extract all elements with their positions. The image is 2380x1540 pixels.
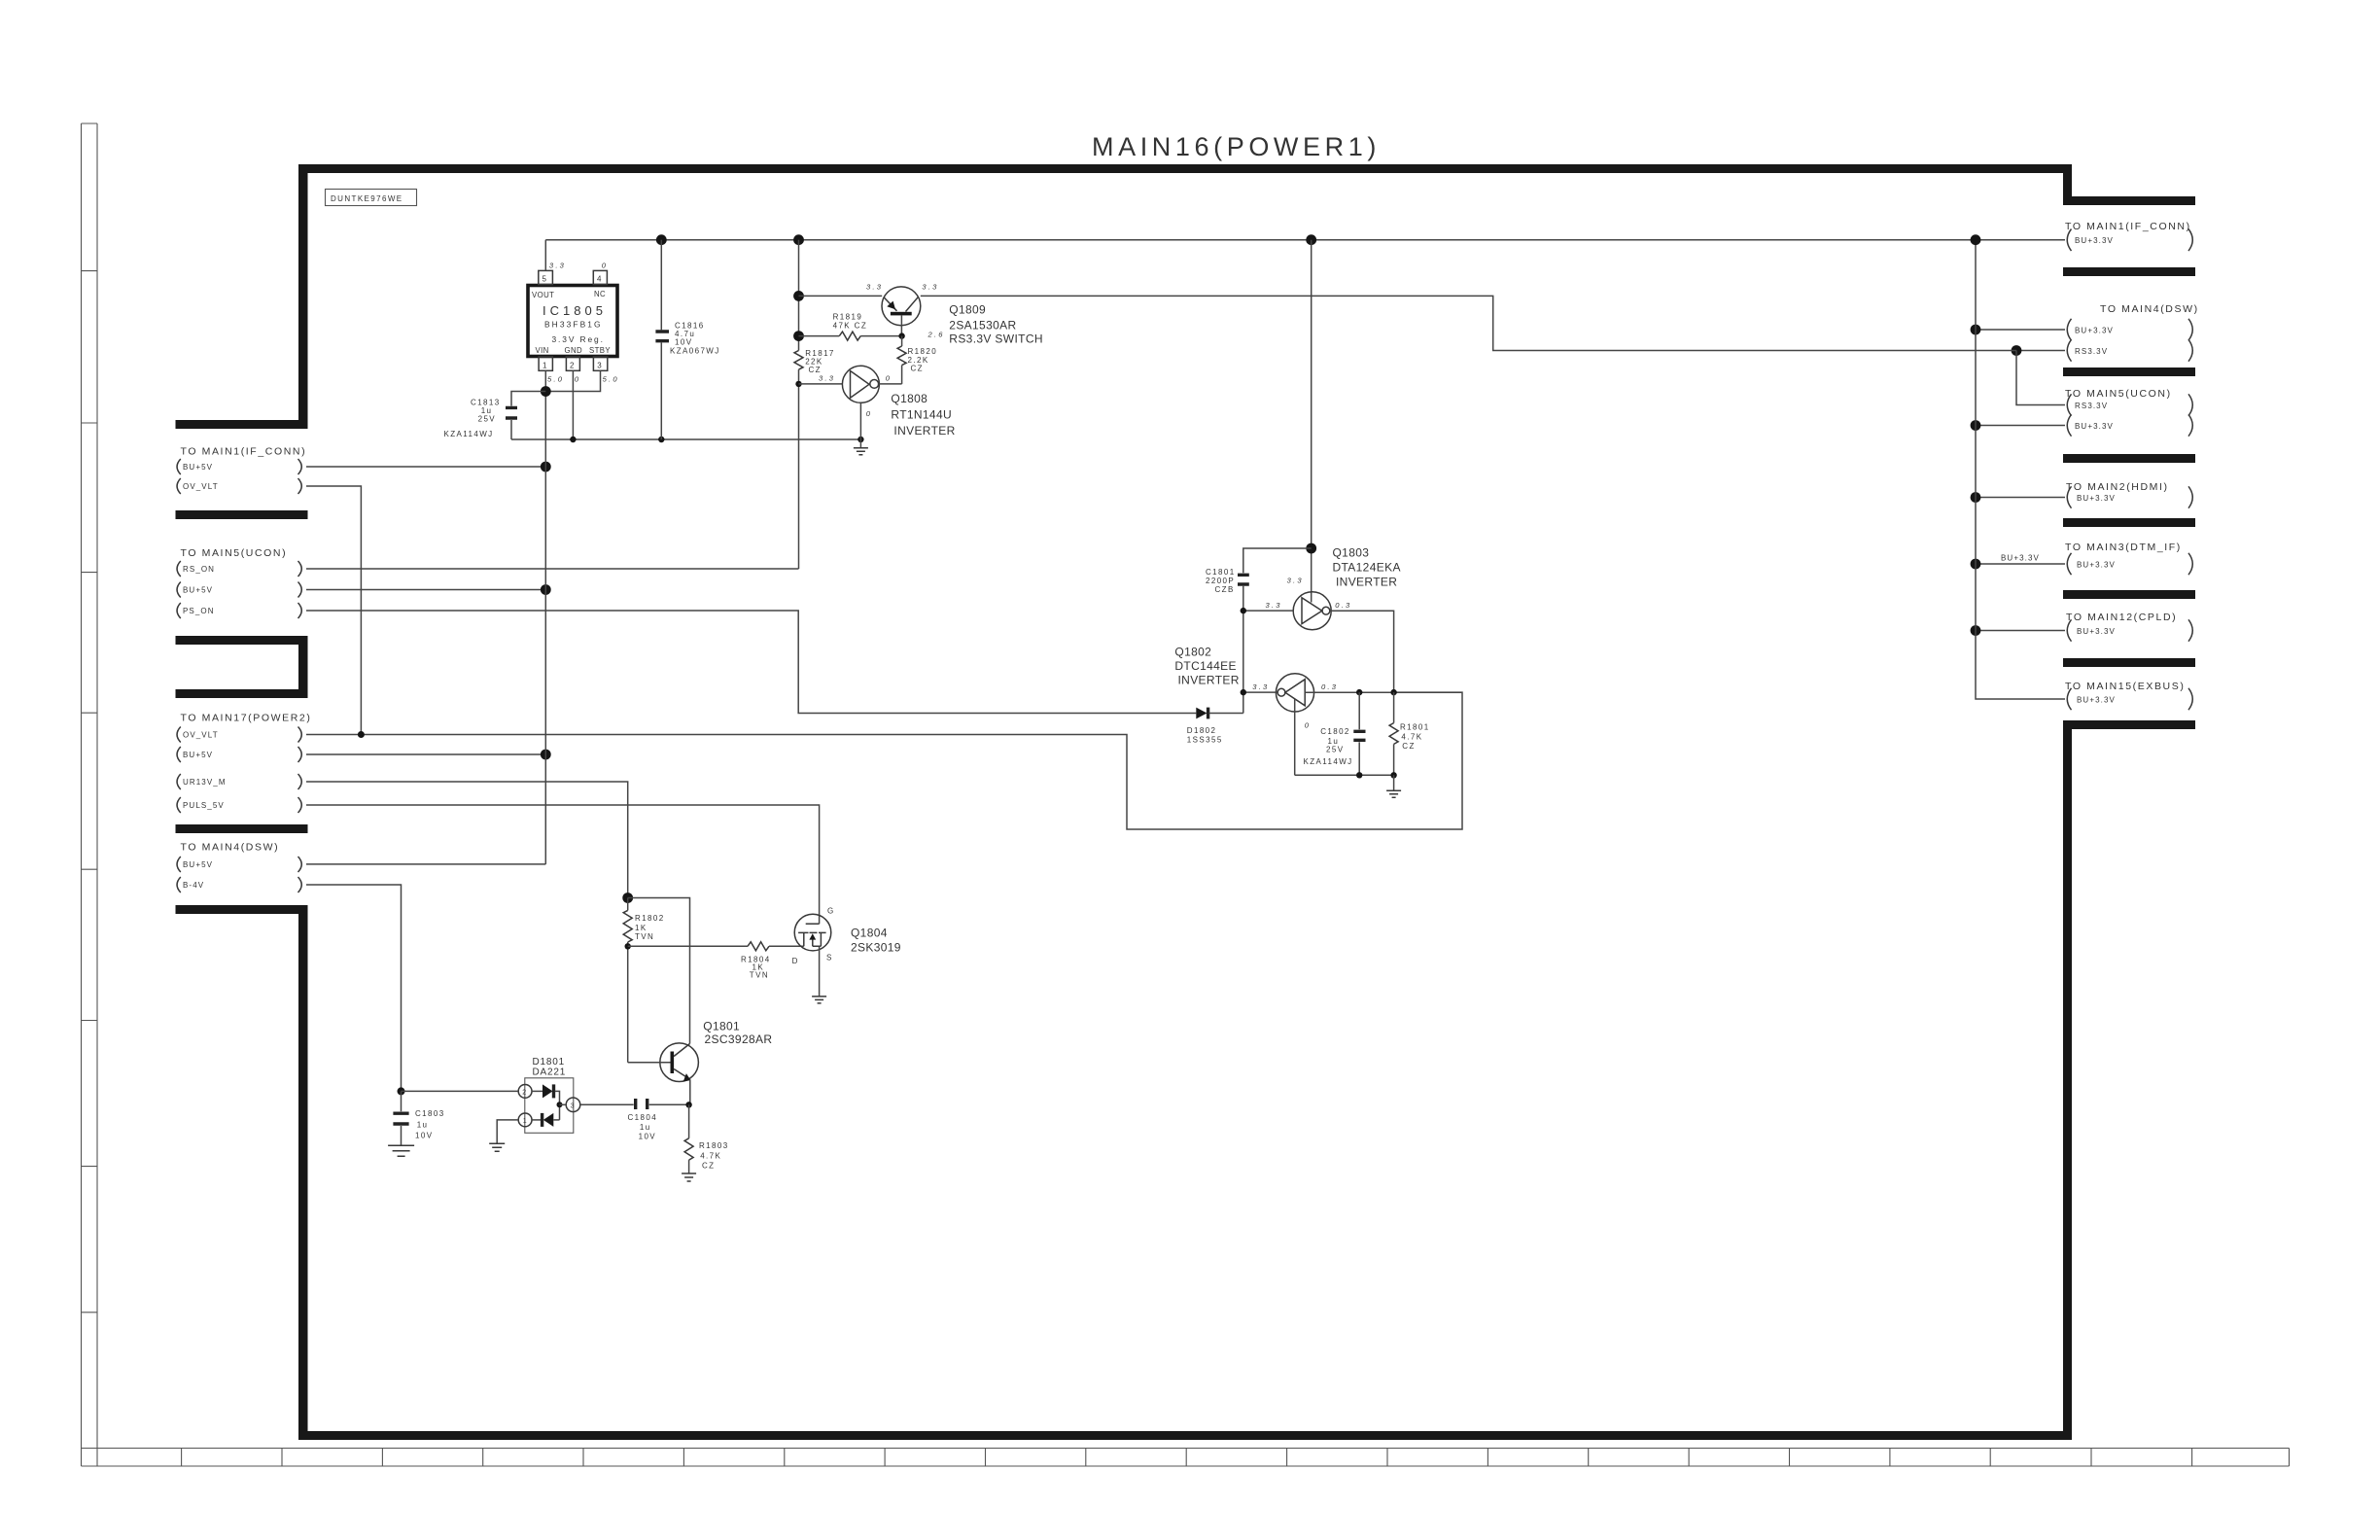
inverter Q1803 DTA124EKA: [1293, 592, 1331, 630]
wire Q1809 emitter branch vertical: [798, 240, 800, 351]
svg-text:INVERTER: INVERTER: [893, 424, 955, 437]
pin B-4V: [177, 877, 301, 892]
ROOM-BORDER top edge: [298, 164, 2072, 173]
wire BU+5V UCON to VIN riser: [306, 589, 545, 591]
node junction Q1802 input: [1241, 689, 1246, 695]
ROOM-BORDER left C-notch top bar: [176, 636, 308, 645]
node junction Q1808 input tee: [795, 381, 801, 387]
wire C1816 top branch: [660, 240, 662, 331]
wire collector link to Q1801: [628, 898, 690, 1044]
svg-text:DUNTKE976WE: DUNTKE976WE: [331, 194, 403, 203]
svg-text:C1802: C1802: [1320, 727, 1350, 736]
svg-text:1: 1: [523, 1118, 527, 1125]
node junction Q1803 input: [1241, 608, 1246, 613]
svg-text:TO MAIN3(DTM_IF): TO MAIN3(DTM_IF): [2065, 542, 2182, 553]
ROOM-BORDER right bar 7: [2063, 658, 2195, 667]
wire OV_VLT POWER2 loop to Q1802 output: [306, 692, 1462, 829]
svg-text:BU+3.3V: BU+3.3V: [2075, 326, 2114, 334]
wire C1803 bottom to ground: [401, 1126, 402, 1145]
ROOM-BORDER right cap below MAIN15(EXBUS): [2063, 720, 2195, 729]
svg-text:Q1802: Q1802: [1174, 646, 1211, 659]
pin BU+3.3V (MAIN3 right): [2067, 553, 2192, 575]
ROOM-BORDER left bar between MAIN17 and MAIN4 groups: [176, 824, 308, 833]
ROOM-BORDER right step vertical: [2063, 164, 2072, 205]
svg-text:DA221: DA221: [533, 1067, 567, 1078]
svg-text:D1802: D1802: [1187, 726, 1217, 735]
pin BU+3.3V (MAIN15 right): [2067, 688, 2192, 710]
svg-text:INVERTER: INVERTER: [1178, 674, 1240, 687]
svg-text:CZ: CZ: [911, 365, 924, 373]
svg-text:2SC3928AR: 2SC3928AR: [705, 1032, 773, 1046]
wire Q1809 emitter lead: [799, 295, 883, 297]
svg-text:0.3: 0.3: [1321, 682, 1338, 691]
node junction RS3.3V tee: [2012, 345, 2022, 356]
IC1805 pin 3 box: [593, 357, 607, 370]
ROOM-BORDER left top vertical: [298, 164, 308, 429]
svg-text:0: 0: [886, 374, 892, 383]
svg-text:3.3: 3.3: [1252, 682, 1269, 691]
svg-text:STBY: STBY: [589, 346, 611, 355]
svg-text:OV_VLT: OV_VLT: [183, 731, 219, 740]
transistor Q1804 2SK3019: [794, 914, 831, 951]
transistor Q1809 2SA1530AR: [882, 287, 921, 326]
node junction BU+5V/VIN: [541, 462, 551, 472]
wire BU+3.3V bus vertical with MAIN15 elbow: [1976, 240, 2065, 699]
ROOM-BORDER left cap below MAIN4 group: [176, 905, 308, 914]
wire RS3.3V from Q1809 collector to right connectors: [921, 296, 2016, 350]
svg-text:KZA067WJ: KZA067WJ: [670, 347, 720, 356]
svg-text:RT1N144U: RT1N144U: [891, 408, 952, 422]
svg-text:TO MAIN4(DSW): TO MAIN4(DSW): [181, 842, 280, 854]
svg-text:R1801: R1801: [1400, 723, 1430, 732]
svg-text:3.3V Reg.: 3.3V Reg.: [552, 334, 605, 344]
IC1805 pin 4 box: [593, 270, 607, 284]
wire BU+3.3V MAIN5 stub: [1976, 425, 2065, 427]
svg-text:TO MAIN15(EXBUS): TO MAIN15(EXBUS): [2065, 681, 2185, 692]
svg-text:NC: NC: [594, 290, 606, 298]
svg-text:5.0: 5.0: [603, 375, 619, 384]
pin RS_ON: [177, 561, 301, 577]
wire D1801 pin1 to ground: [497, 1120, 518, 1143]
wire pin2 GND riser: [572, 370, 574, 439]
svg-text:TVN: TVN: [750, 971, 769, 980]
wire C1813 bottom to ground rail: [510, 420, 512, 439]
svg-text:VOUT: VOUT: [532, 291, 554, 299]
node junction rail/bus: [1971, 234, 1981, 245]
svg-text:4.7K: 4.7K: [700, 1152, 721, 1161]
wire PS_ON to D1802 anode: [306, 611, 1196, 714]
ROOM-BORDER bottom edge: [298, 1431, 2072, 1440]
pin OV_VLT (MAIN1 left): [177, 478, 301, 494]
IC1805 pin 5 box: [539, 270, 553, 284]
svg-text:TO MAIN5(UCON): TO MAIN5(UCON): [2065, 388, 2172, 400]
pin BU+5V (POWER2): [177, 747, 301, 762]
PAGE-FRAME fold ticks: [82, 271, 98, 1312]
svg-text:CZ: CZ: [702, 1162, 715, 1171]
svg-text:VIN: VIN: [536, 346, 549, 355]
svg-text:3.3: 3.3: [1287, 577, 1304, 585]
wire pin1 VIN riser down through BU+5V taps: [544, 370, 546, 864]
wire BU+3.3V top rail: [545, 239, 2065, 241]
wire RS3.3V MAIN4 stub: [2016, 350, 2065, 352]
ground symbol under Q1804: [812, 997, 826, 1003]
svg-text:Q1801: Q1801: [703, 1020, 740, 1033]
svg-text:TO MAIN1(IF_CONN): TO MAIN1(IF_CONN): [2065, 221, 2191, 232]
pin BU+3.3V (MAIN4 right): [2067, 319, 2192, 340]
wire BU+5V MAIN1 to VIN riser: [306, 466, 545, 468]
svg-text:C1801: C1801: [1206, 568, 1236, 577]
svg-text:GND: GND: [565, 346, 583, 355]
svg-text:RS_ON: RS_ON: [183, 565, 215, 574]
wire OV_VLT MAIN1 down to POWER2 OV_VLT net: [306, 486, 361, 735]
wire PULS_5V to Q1804 gate: [306, 805, 820, 924]
transistor Q1801 2SC3928AR: [660, 1043, 699, 1082]
resistor R1817 22K: [794, 351, 803, 370]
regulator IC1805 outer box: [528, 286, 617, 357]
D1801 pin 3 circle: [566, 1098, 580, 1112]
BOARD-LABEL DUNTKE976WE: [326, 190, 417, 206]
svg-text:BU+3.3V: BU+3.3V: [2077, 494, 2116, 503]
svg-text:5: 5: [542, 275, 548, 284]
wire ground rail under C1802/R1801: [1295, 774, 1394, 776]
resistor R1801 4.7K: [1393, 692, 1395, 723]
pin RS3.3V (MAIN4 right): [2067, 339, 2192, 361]
svg-text:INVERTER: INVERTER: [1336, 576, 1397, 589]
svg-text:RS3.3V: RS3.3V: [2075, 402, 2108, 410]
ROOM-BORDER left bar between MAIN1 and MAIN5 groups: [176, 510, 308, 519]
svg-text:BU+3.3V: BU+3.3V: [2075, 422, 2114, 431]
svg-text:RS3.3V: RS3.3V: [2075, 347, 2108, 356]
ROOM-BORDER right bar 6: [2063, 590, 2195, 599]
PAGE-FRAME left margin column: [82, 123, 98, 1466]
capacitor C1813: [506, 407, 517, 418]
node junction R1819/R1817 tee: [793, 331, 804, 341]
node junction UR13V_M/R1802/collector: [622, 892, 633, 903]
capacitor C1802 1u: [1358, 692, 1360, 729]
svg-text:2SA1530AR: 2SA1530AR: [949, 319, 1016, 332]
wire BU+3.3V MAIN12 stub: [1976, 630, 2065, 632]
node junction emitter tee: [793, 291, 804, 301]
svg-text:BH33FB1G: BH33FB1G: [544, 320, 603, 330]
svg-text:R1819: R1819: [833, 313, 863, 322]
ROOM-BORDER right bottom vertical: [2063, 720, 2072, 1440]
svg-text:2.6: 2.6: [927, 331, 945, 339]
diode array D1801 DA221 box: [525, 1078, 574, 1134]
wire C1816 bottom to ground rail: [660, 342, 662, 439]
svg-text:KZA114WJ: KZA114WJ: [444, 430, 494, 438]
wire Q1802 ground pin: [1294, 699, 1296, 775]
inverter Q1802 DTC144EE: [1276, 674, 1313, 712]
svg-text:B-4V: B-4V: [183, 881, 204, 890]
wire B-4V to D1801 pin2: [402, 1090, 519, 1092]
svg-text:R1803: R1803: [699, 1141, 729, 1150]
svg-text:C1804: C1804: [628, 1113, 658, 1122]
node junction R1819/R1820: [898, 332, 904, 338]
node junction Q1808/rail: [857, 437, 863, 442]
wire R1817 bottom to Q1808 input: [798, 369, 800, 569]
wire RS_ON to Q1808 input riser: [306, 568, 799, 570]
pin UR13V_M: [177, 774, 301, 789]
pin RS3.3V (MAIN5 right): [2067, 394, 2192, 415]
svg-text:3: 3: [597, 362, 603, 370]
svg-text:3: 3: [571, 1103, 575, 1110]
svg-text:TO MAIN2(HDMI): TO MAIN2(HDMI): [2066, 481, 2169, 493]
svg-text:1: 1: [542, 362, 548, 370]
svg-text:TO MAIN1(IF_CONN): TO MAIN1(IF_CONN): [181, 446, 307, 458]
svg-text:1SS355: 1SS355: [1187, 736, 1223, 745]
svg-text:10V: 10V: [639, 1133, 656, 1141]
svg-text:0: 0: [1305, 721, 1311, 730]
wire C1803 branch down: [401, 1091, 402, 1111]
svg-text:D1801: D1801: [533, 1057, 565, 1067]
pin BU+5V (DSW): [177, 857, 301, 872]
svg-text:BU+3.3V: BU+3.3V: [2075, 236, 2114, 245]
svg-text:MAIN16(POWER1): MAIN16(POWER1): [1092, 132, 1381, 161]
ground symbol at D1801 pin1: [489, 1143, 505, 1151]
wire Q1804 source to ground: [819, 946, 821, 996]
svg-text:Q1804: Q1804: [851, 927, 888, 940]
diode D1801a (pin2): [532, 1090, 542, 1092]
resistor R1804 1K: [628, 945, 748, 947]
svg-text:47K CZ: 47K CZ: [833, 322, 868, 331]
pin BU+3.3V (MAIN5 right): [2067, 414, 2192, 436]
svg-text:3.3: 3.3: [1266, 601, 1282, 610]
node junction emitter/C1804/R1803: [685, 1102, 691, 1107]
svg-text:Q1803: Q1803: [1333, 546, 1370, 560]
node junction C1802/gnd rail: [1356, 772, 1362, 778]
svg-text:1K: 1K: [635, 924, 647, 932]
pin BU+5V (MAIN1 left): [177, 459, 301, 474]
svg-text:CZ: CZ: [1402, 742, 1415, 751]
svg-text:1u: 1u: [640, 1123, 651, 1132]
svg-text:CZB: CZB: [1215, 585, 1235, 594]
ground symbol under C1803: [388, 1145, 414, 1156]
node junction C1816/rail: [658, 437, 664, 442]
node junction VIN/STBY/C1813: [541, 386, 551, 397]
svg-text:3.3: 3.3: [866, 283, 883, 292]
svg-text:BU+3.3V: BU+3.3V: [2077, 695, 2116, 704]
node junction OV_VLT tee: [358, 731, 365, 738]
pin BU+3.3V (MAIN1 right): [2067, 229, 2192, 252]
node junction rail/Q1809 branch: [793, 234, 804, 245]
pin BU+3.3V (MAIN2 right): [2067, 486, 2192, 507]
resistor R1820 2.2K: [901, 336, 903, 346]
capacitor C1801 2200P: [1238, 575, 1249, 584]
capacitor C1803 1u: [393, 1113, 408, 1124]
wire B-4V to D1801/C1803: [306, 885, 402, 1091]
resistor R1803 4.7K: [688, 1104, 690, 1138]
svg-text:OV_VLT: OV_VLT: [183, 482, 219, 491]
svg-text:G: G: [827, 907, 834, 916]
wire C1801 bottom to inverter inputs: [1242, 586, 1244, 714]
svg-text:1u: 1u: [417, 1121, 429, 1130]
wire BU+3.3V MAIN2 stub: [1976, 497, 2065, 499]
wire D1801 pin3 to C1804: [580, 1103, 634, 1105]
node junction bus MAIN12: [1971, 625, 1981, 636]
svg-text:0: 0: [602, 262, 608, 270]
svg-text:BU+5V: BU+5V: [183, 586, 213, 595]
svg-text:BU+5V: BU+5V: [183, 751, 213, 759]
svg-text:TO MAIN17(POWER2): TO MAIN17(POWER2): [181, 713, 312, 724]
ground symbol under R1803: [682, 1173, 696, 1181]
svg-text:3.3: 3.3: [549, 262, 566, 270]
wire D1801 common to pin3: [560, 1103, 567, 1105]
node junction bus MAIN2: [1971, 492, 1981, 503]
node junction BU+5V POWER2: [541, 750, 551, 760]
diode D1801b (pin1): [532, 1119, 542, 1121]
wire Q1801 emitter down: [689, 1079, 691, 1104]
ROOM-BORDER left cap above MAIN1 group: [176, 420, 308, 429]
svg-text:TVN: TVN: [635, 932, 654, 941]
wire BU+3.3V MAIN4 stub: [1976, 329, 2065, 331]
wire Q1803 output down to Q1802 output row: [1330, 611, 1394, 692]
pin BU+5V (UCON): [177, 582, 301, 598]
inverter Q1808 RT1N144U: [799, 383, 843, 385]
node junction R1801/gnd rail: [1390, 772, 1396, 778]
ROOM-BORDER left C-notch bottom bar: [176, 689, 308, 698]
pin BU+3.3V (MAIN12 right): [2067, 619, 2192, 641]
wire ground rail: [511, 438, 860, 440]
svg-text:D: D: [792, 957, 799, 965]
wire BU+5V DSW to VIN riser corner: [306, 863, 545, 865]
svg-text:RS3.3V SWITCH: RS3.3V SWITCH: [949, 332, 1043, 346]
svg-text:0: 0: [866, 409, 872, 418]
svg-text:25V: 25V: [1326, 746, 1344, 754]
svg-text:R1820: R1820: [908, 347, 938, 356]
D1801 pin 1 circle: [518, 1113, 532, 1127]
ground symbol under R1801: [1393, 775, 1395, 790]
wire BU+3.3V MAIN3 stub: [1976, 563, 2065, 565]
svg-text:UR13V_M: UR13V_M: [183, 778, 227, 787]
node junction D1801 common: [557, 1102, 563, 1107]
svg-text:Q1808: Q1808: [891, 392, 927, 405]
wire Q1808 ground pin: [859, 402, 861, 439]
wire C1801 branch: [1243, 548, 1312, 573]
ROOM-BORDER left bottom vertical: [298, 905, 308, 1440]
IC1805 pin 1 box: [539, 357, 552, 370]
node junction C1801 tee: [1306, 543, 1316, 554]
ROOM-BORDER right bar 3: [2063, 367, 2195, 376]
pin PULS_5V: [177, 797, 301, 813]
ROOM-BORDER right bar 5: [2063, 518, 2195, 527]
ROOM-BORDER right cap above MAIN1(IF_CONN): [2063, 196, 2195, 205]
ground symbol under Q1808: [859, 439, 861, 448]
svg-text:BU+3.3V: BU+3.3V: [2001, 554, 2040, 563]
svg-text:C1803: C1803: [415, 1109, 445, 1118]
ROOM-BORDER right bar 4: [2063, 454, 2195, 463]
svg-text:BU+5V: BU+5V: [183, 463, 213, 472]
svg-text:3.3: 3.3: [819, 374, 835, 383]
wire pin3 STBY jog to VIN riser: [545, 370, 600, 391]
diode D1802 1SS355: [1196, 708, 1207, 719]
node junction R1802/R1804: [625, 943, 631, 949]
svg-text:BU+5V: BU+5V: [183, 860, 213, 869]
svg-text:3.3: 3.3: [922, 283, 938, 292]
wire BU+5V POWER2 to VIN riser: [306, 753, 545, 755]
capacitor C1816: [655, 332, 669, 341]
svg-text:4: 4: [597, 275, 603, 284]
svg-text:DTA124EKA: DTA124EKA: [1333, 561, 1401, 575]
wire Q1809 base stem: [900, 315, 902, 335]
svg-text:BU+3.3V: BU+3.3V: [2077, 627, 2116, 636]
ROOM-BORDER right bar 2: [2063, 267, 2195, 276]
node junction rail/Q1803 branch: [1306, 234, 1316, 245]
resistor R1802 1K: [627, 898, 629, 911]
node junction rail/C1816: [656, 234, 667, 245]
svg-text:4.7K: 4.7K: [1401, 733, 1422, 742]
node junction BU+5V UCON: [541, 584, 551, 595]
svg-text:10V: 10V: [675, 337, 692, 346]
IC1805 pin 2 box: [566, 357, 579, 370]
svg-text:R1802: R1802: [635, 914, 665, 923]
wire RS3.3V drop to MAIN5: [2016, 351, 2065, 405]
pin PS_ON: [177, 603, 301, 618]
svg-text:S: S: [826, 954, 832, 962]
svg-text:TO MAIN5(UCON): TO MAIN5(UCON): [181, 547, 288, 559]
resistor R1819 47K: [799, 335, 840, 337]
svg-text:TO MAIN12(CPLD): TO MAIN12(CPLD): [2066, 612, 2177, 623]
PAGE-FRAME bottom table strip: [82, 1449, 2290, 1467]
svg-text:2: 2: [522, 1089, 526, 1096]
pin OV_VLT (POWER2): [177, 727, 301, 743]
node junction B-4V/D1801/C1803: [398, 1087, 405, 1095]
svg-text:25V: 25V: [478, 415, 496, 424]
wire Q1803 emitter branch from rail: [1311, 240, 1312, 603]
svg-text:BU+3.3V: BU+3.3V: [2077, 560, 2116, 569]
capacitor C1804 1u (series): [636, 1099, 647, 1109]
ROOM-BORDER left C-notch vertical: [298, 636, 308, 698]
node junction bus MAIN4: [1971, 325, 1981, 335]
wire pin5 riser to rail: [544, 240, 546, 271]
svg-text:2200P: 2200P: [1206, 577, 1235, 585]
node junction Q1802 output / R1801: [1390, 689, 1396, 695]
node junction Q1802 output / C1802: [1356, 689, 1362, 695]
svg-text:IC1805: IC1805: [542, 303, 607, 318]
svg-text:10V: 10V: [415, 1132, 433, 1140]
svg-text:Q1809: Q1809: [949, 303, 986, 317]
wire C1813 branch: [511, 392, 545, 406]
svg-text:2: 2: [570, 362, 576, 370]
svg-text:0: 0: [575, 375, 580, 384]
svg-text:PS_ON: PS_ON: [183, 607, 215, 615]
svg-text:KZA114WJ: KZA114WJ: [1304, 757, 1353, 766]
svg-text:5.0: 5.0: [547, 375, 564, 384]
svg-text:PULS_5V: PULS_5V: [183, 801, 225, 810]
svg-text:DTC144EE: DTC144EE: [1174, 659, 1237, 673]
svg-text:TO MAIN4(DSW): TO MAIN4(DSW): [2100, 303, 2199, 315]
node junction GND pin2/rail: [570, 437, 576, 442]
svg-text:0.3: 0.3: [1335, 601, 1351, 610]
node junction bus MAIN5: [1971, 420, 1981, 431]
svg-text:2SK3019: 2SK3019: [851, 941, 901, 955]
D1801 pin 2 circle: [518, 1085, 532, 1099]
node junction bus MAIN3: [1971, 559, 1981, 570]
wire UR13V_M to R1802 top: [306, 782, 628, 898]
